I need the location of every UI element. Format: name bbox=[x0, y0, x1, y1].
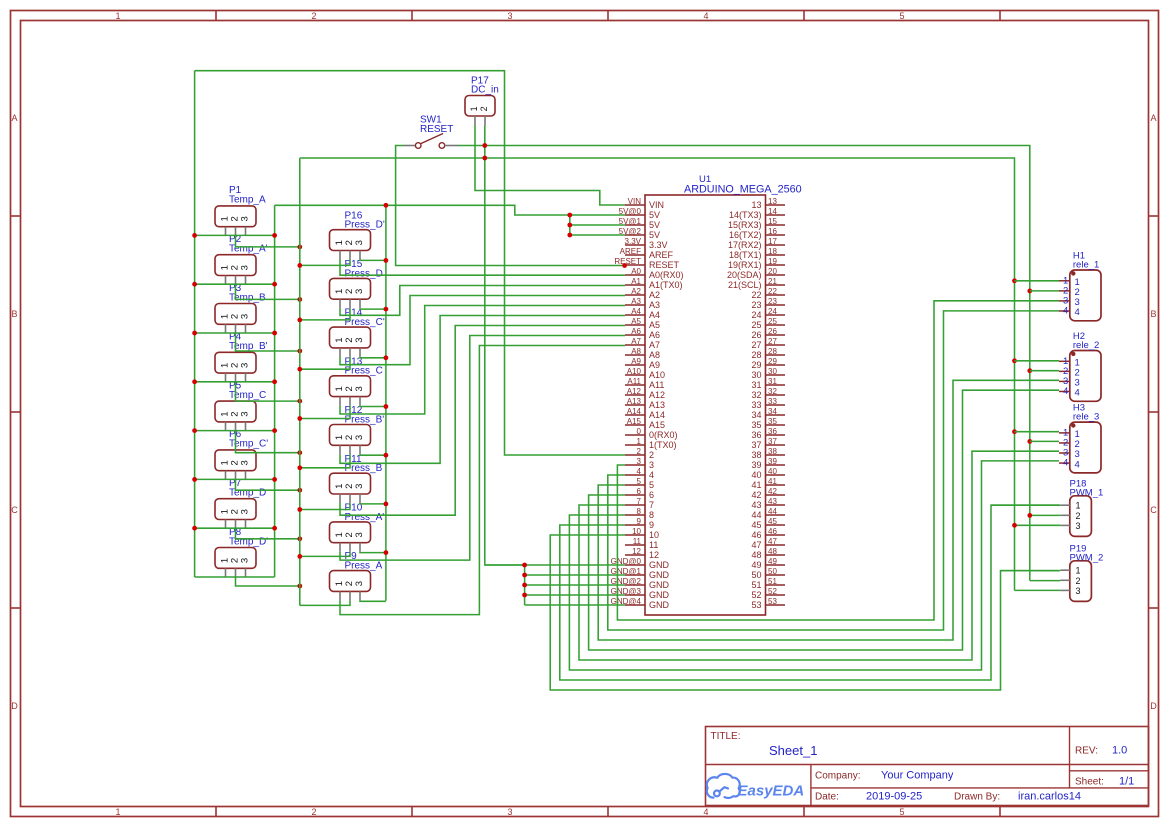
U1 left pin 6 bbox=[625, 494, 645, 496]
svg-text:3: 3 bbox=[1076, 586, 1081, 596]
P1 pin 3 stub bbox=[245, 227, 247, 236]
svg-text:A6: A6 bbox=[649, 330, 660, 340]
svg-text:37: 37 bbox=[768, 437, 777, 446]
wire P10 signal to A6 bbox=[340, 336, 625, 561]
svg-text:4: 4 bbox=[649, 470, 654, 480]
wire P12 signal to A4 bbox=[340, 316, 625, 464]
P11 pin 1 stub bbox=[339, 494, 341, 503]
H2 pin 4 bbox=[1059, 390, 1070, 392]
wire P17 pin1 VIN bbox=[475, 126, 625, 206]
U1 right pin 36 bbox=[766, 434, 786, 436]
H3 pin 2 bbox=[1059, 442, 1070, 444]
svg-text:5: 5 bbox=[899, 807, 904, 817]
svg-text:RESET: RESET bbox=[649, 260, 680, 270]
svg-text:PWM_1: PWM_1 bbox=[1070, 487, 1104, 498]
svg-text:Date:: Date: bbox=[815, 792, 839, 803]
wire P16 signal to A0 bbox=[340, 260, 625, 276]
P14 pin 2 stub bbox=[349, 348, 351, 357]
svg-text:1: 1 bbox=[115, 807, 120, 817]
svg-text:17(RX2): 17(RX2) bbox=[728, 240, 762, 250]
svg-text:31: 31 bbox=[768, 377, 777, 386]
svg-text:38: 38 bbox=[768, 447, 777, 456]
U1 left pin A0 bbox=[625, 274, 645, 276]
svg-text:A4: A4 bbox=[631, 307, 641, 316]
svg-text:20(SDA): 20(SDA) bbox=[727, 270, 762, 280]
svg-text:32: 32 bbox=[768, 387, 777, 396]
svg-text:3.3V: 3.3V bbox=[625, 237, 642, 246]
svg-text:29: 29 bbox=[751, 360, 761, 370]
H1 pin1 marker bbox=[1071, 271, 1075, 275]
U1 right pin 49 bbox=[766, 564, 786, 566]
wire SW1 right to right rail B bbox=[458, 146, 1030, 581]
junction P6 signal bbox=[297, 488, 302, 493]
P14 pin 1 stub bbox=[339, 348, 341, 357]
svg-text:41: 41 bbox=[768, 477, 777, 486]
U1 left pin VIN bbox=[625, 204, 645, 206]
U1 left pin GND@4 bbox=[625, 604, 645, 606]
U1 left pin 7 bbox=[625, 504, 645, 506]
connector P2 Temp_A' body bbox=[215, 255, 256, 276]
P5 pin 1 stub bbox=[225, 422, 227, 431]
H2 pin1 marker bbox=[1071, 352, 1075, 356]
U1 right pin 51 bbox=[766, 584, 786, 586]
wire P4 pins1-3 bus bbox=[195, 381, 275, 383]
svg-text:50: 50 bbox=[768, 567, 777, 576]
svg-text:18: 18 bbox=[768, 247, 777, 256]
svg-text:3.3V: 3.3V bbox=[649, 240, 668, 250]
svg-text:18(TX1): 18(TX1) bbox=[729, 250, 762, 260]
junction GND pins bbox=[522, 563, 527, 568]
svg-text:27: 27 bbox=[768, 337, 777, 346]
U1 left pin 3.3V bbox=[625, 244, 645, 246]
H3 pin 1 bbox=[1059, 432, 1070, 434]
svg-text:46: 46 bbox=[768, 527, 777, 536]
U1 left pin 0 bbox=[625, 434, 645, 436]
svg-text:C: C bbox=[1150, 505, 1157, 515]
P2 pin 1 stub bbox=[225, 276, 227, 285]
U1 left pin 10 bbox=[625, 534, 645, 536]
svg-text:rele_2: rele_2 bbox=[1073, 340, 1099, 351]
svg-text:5V: 5V bbox=[649, 210, 660, 220]
svg-text:5: 5 bbox=[899, 11, 904, 21]
svg-text:3: 3 bbox=[240, 363, 251, 368]
junction rail B at H pins 2 bbox=[1027, 289, 1032, 294]
svg-text:25: 25 bbox=[768, 317, 777, 326]
svg-text:6: 6 bbox=[637, 487, 642, 496]
U1 left pin 5V@2 bbox=[625, 234, 645, 236]
svg-text:1(TX0): 1(TX0) bbox=[649, 440, 677, 450]
wire GND bus at U1 bbox=[485, 564, 625, 566]
svg-text:1: 1 bbox=[115, 11, 120, 21]
svg-text:2: 2 bbox=[311, 807, 316, 817]
svg-text:A11: A11 bbox=[649, 380, 664, 390]
P16 pin 2 stub bbox=[349, 251, 351, 260]
svg-text:A3: A3 bbox=[631, 297, 641, 306]
svg-text:45: 45 bbox=[768, 517, 777, 526]
svg-text:A15: A15 bbox=[649, 420, 665, 430]
svg-text:3: 3 bbox=[637, 457, 642, 466]
P7 pin 2 stub bbox=[235, 520, 237, 529]
U1 left pin A9 bbox=[625, 364, 645, 366]
wire P7 pins1-3 bus bbox=[195, 527, 275, 529]
svg-text:48: 48 bbox=[751, 550, 761, 560]
svg-text:Press_D': Press_D' bbox=[345, 220, 385, 231]
wire P10 pin2 to common rail bbox=[300, 552, 350, 557]
svg-text:3: 3 bbox=[354, 386, 365, 391]
svg-text:2: 2 bbox=[311, 11, 316, 21]
U1 left pin 9 bbox=[625, 524, 645, 526]
svg-text:7: 7 bbox=[649, 500, 654, 510]
wire common node row to right rail A bbox=[300, 158, 1015, 590]
U1 left pin 5V@0 bbox=[625, 214, 645, 216]
P10 pin 2 stub bbox=[349, 543, 351, 552]
svg-text:AREF: AREF bbox=[620, 247, 641, 256]
svg-text:27: 27 bbox=[751, 340, 761, 350]
P8 pin 1 stub bbox=[225, 568, 227, 577]
P19 pin 1 stub bbox=[1060, 569, 1070, 571]
U1 right pin 14(TX3) bbox=[766, 214, 786, 216]
svg-text:GND: GND bbox=[649, 590, 670, 600]
svg-text:30: 30 bbox=[751, 370, 761, 380]
wire P2 signal pin2 bbox=[236, 284, 300, 299]
P11 pin 2 stub bbox=[349, 494, 351, 503]
P1 pin 2 stub bbox=[235, 227, 237, 236]
junction P8 signal bbox=[297, 584, 302, 589]
junction P7 signal bbox=[297, 536, 302, 541]
H1 pin 4 bbox=[1059, 310, 1070, 312]
wire P10 pin3 to rail bbox=[360, 551, 386, 554]
wire P4 signal pin2 bbox=[236, 382, 300, 401]
wire P8 signal pin2 bbox=[236, 577, 300, 586]
svg-text:RESET: RESET bbox=[420, 124, 453, 135]
svg-text:0: 0 bbox=[637, 427, 642, 436]
P17 pin 1 stub bbox=[474, 116, 476, 126]
svg-text:29: 29 bbox=[768, 357, 777, 366]
U1 left pin GND@3 bbox=[625, 594, 645, 596]
junction P16 pin2 bbox=[297, 263, 302, 268]
junction P2 signal bbox=[297, 297, 302, 302]
connector P1 Temp_A body bbox=[215, 206, 256, 227]
wire P14 pin3 to rail bbox=[360, 356, 386, 359]
U1 left pin 2 bbox=[625, 454, 645, 456]
wire P9 pin3 to rail bbox=[360, 599, 386, 602]
junction P10 pin3 bbox=[384, 550, 389, 555]
U1 right pin 19(RX1) bbox=[766, 264, 786, 266]
svg-text:3: 3 bbox=[240, 460, 251, 465]
svg-text:4: 4 bbox=[703, 807, 708, 817]
svg-text:A8: A8 bbox=[631, 347, 641, 356]
svg-text:1: 1 bbox=[1076, 501, 1081, 511]
svg-text:3: 3 bbox=[1076, 521, 1081, 531]
svg-text:Sheet_1: Sheet_1 bbox=[769, 743, 817, 758]
svg-text:37: 37 bbox=[751, 440, 761, 450]
U1 right pin 33 bbox=[766, 404, 786, 406]
P3 pin 3 stub bbox=[245, 324, 247, 333]
junction P3 signal bbox=[297, 349, 302, 354]
op-amp U1 ARDUINO_MEGA_2560 body bbox=[645, 195, 766, 615]
svg-text:28: 28 bbox=[768, 347, 777, 356]
connector H3 rele_3 body bbox=[1070, 422, 1101, 473]
svg-text:Press_A': Press_A' bbox=[345, 512, 385, 523]
connector P3 Temp_B body bbox=[215, 304, 256, 325]
connector P4 Temp_B' body bbox=[215, 352, 256, 373]
U1 left pin GND@0 bbox=[625, 564, 645, 566]
svg-text:26: 26 bbox=[751, 330, 761, 340]
svg-text:B: B bbox=[11, 309, 17, 319]
wire P15 signal to A1 bbox=[340, 286, 625, 316]
svg-text:4: 4 bbox=[1063, 458, 1068, 469]
P2 pin 3 stub bbox=[245, 276, 247, 285]
svg-text:11: 11 bbox=[649, 540, 658, 550]
wire U1 pin 5 loop to right connector bbox=[598, 380, 1059, 640]
P19 pin 3 stub bbox=[1060, 589, 1070, 591]
svg-text:43: 43 bbox=[751, 500, 761, 510]
connector P5 Temp_C body bbox=[215, 401, 256, 422]
svg-text:0(RX0): 0(RX0) bbox=[649, 430, 678, 440]
wire P15 pin3 to rail bbox=[360, 307, 386, 310]
junction RESET pin bbox=[622, 263, 627, 268]
svg-text:52: 52 bbox=[768, 587, 777, 596]
junction P4 rail dots bbox=[192, 379, 197, 384]
svg-text:A0: A0 bbox=[631, 267, 641, 276]
svg-text:40: 40 bbox=[768, 467, 777, 476]
junction P7 rail dots bbox=[192, 526, 197, 531]
U1 right pin 22 bbox=[766, 294, 786, 296]
svg-text:24: 24 bbox=[751, 310, 761, 320]
svg-text:52: 52 bbox=[751, 590, 761, 600]
svg-text:10: 10 bbox=[649, 530, 659, 540]
svg-text:2: 2 bbox=[1076, 511, 1081, 521]
junction P2 rail dots bbox=[192, 282, 197, 287]
U1 right pin 50 bbox=[766, 574, 786, 576]
wire U1 pin 8 loop to right connector bbox=[569, 461, 1059, 670]
svg-text:A7: A7 bbox=[631, 337, 641, 346]
svg-text:44: 44 bbox=[768, 507, 777, 516]
svg-text:3: 3 bbox=[354, 484, 365, 489]
wire P18 pin2 bbox=[1030, 514, 1060, 516]
svg-text:51: 51 bbox=[751, 580, 761, 590]
P13 pin 3 stub bbox=[359, 397, 361, 406]
svg-text:39: 39 bbox=[751, 460, 761, 470]
svg-text:36: 36 bbox=[768, 427, 777, 436]
connector H1 rele_1 body bbox=[1070, 270, 1101, 321]
junction 5V pins bbox=[567, 213, 572, 218]
svg-text:A0(RX0): A0(RX0) bbox=[649, 270, 684, 280]
P17 pin 2 stub bbox=[484, 116, 486, 126]
U1 left pin A14 bbox=[625, 414, 645, 416]
svg-text:40: 40 bbox=[751, 470, 761, 480]
svg-text:3: 3 bbox=[240, 265, 251, 270]
U1 right pin 48 bbox=[766, 554, 786, 556]
svg-text:rele_3: rele_3 bbox=[1073, 412, 1099, 423]
svg-text:A3: A3 bbox=[649, 300, 660, 310]
P3 pin 2 stub bbox=[235, 324, 237, 333]
wire P3 pins1-3 bus bbox=[195, 332, 275, 334]
junction P11 pin3 bbox=[384, 502, 389, 507]
svg-text:RESET: RESET bbox=[614, 257, 641, 266]
EasyEDA logo bbox=[707, 774, 740, 798]
P16 pin 1 stub bbox=[339, 251, 341, 260]
svg-text:25: 25 bbox=[751, 320, 761, 330]
svg-text:33: 33 bbox=[768, 397, 777, 406]
title block outer bbox=[706, 727, 1149, 806]
connector P18 PWM_1 body bbox=[1070, 496, 1092, 537]
svg-text:13: 13 bbox=[751, 200, 761, 210]
svg-text:49: 49 bbox=[751, 560, 761, 570]
P7 pin 1 stub bbox=[225, 520, 227, 529]
U1 left pin 3 bbox=[625, 464, 645, 466]
svg-text:39: 39 bbox=[768, 457, 777, 466]
wire P14 pin2 to common rail bbox=[300, 357, 350, 369]
U1 left pin AREF bbox=[625, 254, 645, 256]
U1 right pin 34 bbox=[766, 414, 786, 416]
svg-text:5V: 5V bbox=[649, 220, 660, 230]
wire P13 signal to A3 bbox=[340, 306, 625, 415]
U1 left pin A4 bbox=[625, 314, 645, 316]
P12 pin 3 stub bbox=[359, 445, 361, 454]
junction P13 pin3 bbox=[384, 404, 389, 409]
svg-text:9: 9 bbox=[649, 520, 654, 530]
wire P14 signal to A2 bbox=[340, 296, 625, 365]
svg-text:6: 6 bbox=[649, 490, 654, 500]
svg-text:5V: 5V bbox=[649, 230, 660, 240]
svg-text:3: 3 bbox=[354, 337, 365, 342]
junction P18 pin3 bbox=[1012, 523, 1017, 528]
svg-text:46: 46 bbox=[751, 530, 761, 540]
wire P16 pin2 to common rail bbox=[300, 260, 350, 266]
svg-text:21(SCL): 21(SCL) bbox=[728, 280, 762, 290]
U1 left pin 12 bbox=[625, 554, 645, 556]
svg-text:VIN: VIN bbox=[628, 197, 642, 206]
connector H2 rele_2 body bbox=[1070, 351, 1101, 402]
P6 pin 3 stub bbox=[245, 471, 247, 480]
U1 right pin 40 bbox=[766, 474, 786, 476]
junction press rail top bbox=[384, 203, 389, 208]
P15 pin 1 stub bbox=[339, 299, 341, 308]
U1 left pin A2 bbox=[625, 294, 645, 296]
junction rail A at H pins 1 bbox=[1012, 278, 1017, 283]
svg-text:A: A bbox=[11, 113, 17, 123]
connector P7 Temp_D body bbox=[215, 499, 256, 520]
wire U1 pin 9 loop to right connector bbox=[560, 505, 1059, 680]
svg-text:D: D bbox=[11, 701, 18, 711]
wire H pin2 connections bbox=[1030, 290, 1059, 292]
U1 left pin A10 bbox=[625, 374, 645, 376]
svg-text:Temp_C: Temp_C bbox=[229, 390, 266, 401]
svg-text:A10: A10 bbox=[627, 367, 642, 376]
svg-text:45: 45 bbox=[751, 520, 761, 530]
svg-text:16: 16 bbox=[768, 227, 777, 236]
svg-text:1/1: 1/1 bbox=[1119, 776, 1134, 788]
connector P8 Temp_D' body bbox=[215, 548, 256, 569]
svg-text:10: 10 bbox=[632, 527, 641, 536]
svg-text:14(TX3): 14(TX3) bbox=[729, 210, 762, 220]
U1 left pin A7 bbox=[625, 344, 645, 346]
svg-text:19(RX1): 19(RX1) bbox=[728, 260, 762, 270]
svg-text:Your Company: Your Company bbox=[881, 770, 954, 782]
wire P19 pin3 from rail A bbox=[1015, 589, 1061, 591]
svg-text:1: 1 bbox=[469, 106, 479, 111]
wire U1 pin 6 loop to right connector bbox=[589, 390, 1059, 650]
wire U1 pin 10 loop to right connector bbox=[550, 535, 1059, 690]
svg-text:22: 22 bbox=[751, 290, 761, 300]
U1 right pin 13 bbox=[766, 204, 786, 206]
svg-text:3: 3 bbox=[354, 581, 365, 586]
svg-text:43: 43 bbox=[768, 497, 777, 506]
P1 pin 1 stub bbox=[225, 227, 227, 236]
svg-text:48: 48 bbox=[768, 547, 777, 556]
wire U1 pin 4 loop to right connector bbox=[608, 311, 1059, 630]
wire top loop to pin 2 bbox=[195, 71, 625, 455]
svg-text:A13: A13 bbox=[627, 397, 642, 406]
svg-text:41: 41 bbox=[751, 480, 761, 490]
svg-text:12: 12 bbox=[632, 547, 641, 556]
P9 pin 3 stub bbox=[359, 591, 361, 600]
junction P12 pin2 bbox=[297, 465, 302, 470]
svg-text:2019-09-25: 2019-09-25 bbox=[866, 791, 922, 803]
svg-text:49: 49 bbox=[768, 557, 777, 566]
U1 right pin 53 bbox=[766, 604, 786, 606]
H2 pin 1 bbox=[1059, 360, 1070, 362]
connector P14 Press_C' body bbox=[330, 327, 371, 348]
svg-text:11: 11 bbox=[633, 537, 642, 546]
svg-text:GND: GND bbox=[649, 560, 670, 570]
P19 pin 2 stub bbox=[1060, 579, 1070, 581]
H3 pin1 marker bbox=[1071, 423, 1075, 427]
svg-text:A5: A5 bbox=[631, 317, 641, 326]
svg-text:GND: GND bbox=[649, 580, 670, 590]
U1 right pin 29 bbox=[766, 364, 786, 366]
junction P11 pin2 bbox=[297, 507, 302, 512]
svg-text:2: 2 bbox=[479, 106, 489, 111]
P10 pin 3 stub bbox=[359, 543, 361, 552]
junction P14 pin3 bbox=[384, 355, 389, 360]
P12 pin 2 stub bbox=[349, 445, 351, 454]
svg-text:A5: A5 bbox=[649, 320, 660, 330]
wire P12 pin3 to rail bbox=[360, 453, 386, 456]
U1 right pin 45 bbox=[766, 524, 786, 526]
svg-text:4: 4 bbox=[1075, 459, 1080, 470]
svg-text:EasyEDA: EasyEDA bbox=[738, 783, 805, 800]
svg-text:GND: GND bbox=[649, 600, 670, 610]
svg-text:32: 32 bbox=[751, 390, 761, 400]
P9 pin 2 stub bbox=[349, 591, 351, 600]
H1 pin 1 bbox=[1059, 280, 1070, 282]
P10 pin 1 stub bbox=[339, 543, 341, 552]
svg-text:23: 23 bbox=[751, 300, 761, 310]
P12 pin 1 stub bbox=[339, 445, 341, 454]
wire P7 signal pin2 bbox=[236, 528, 300, 539]
wire P1 pins1-3 bus bbox=[195, 234, 275, 236]
svg-text:13: 13 bbox=[768, 197, 777, 206]
wire P19 pin2 from rail B bbox=[1030, 580, 1060, 582]
svg-text:A8: A8 bbox=[649, 350, 660, 360]
wire P17 pin2 ground feed bbox=[485, 126, 525, 566]
svg-text:51: 51 bbox=[768, 577, 777, 586]
junction P6 rail dots bbox=[192, 477, 197, 482]
svg-text:19: 19 bbox=[768, 257, 777, 266]
svg-text:AREF: AREF bbox=[649, 250, 674, 260]
svg-text:3: 3 bbox=[240, 509, 251, 514]
svg-text:20: 20 bbox=[768, 267, 777, 276]
connector P11 Press_B body bbox=[330, 473, 371, 494]
P9 pin 1 stub bbox=[339, 591, 341, 600]
wire P11 pin3 to rail bbox=[360, 502, 386, 505]
svg-text:42: 42 bbox=[768, 487, 777, 496]
svg-text:30: 30 bbox=[768, 367, 777, 376]
P4 pin 2 stub bbox=[235, 373, 237, 382]
svg-text:4: 4 bbox=[1075, 307, 1080, 318]
